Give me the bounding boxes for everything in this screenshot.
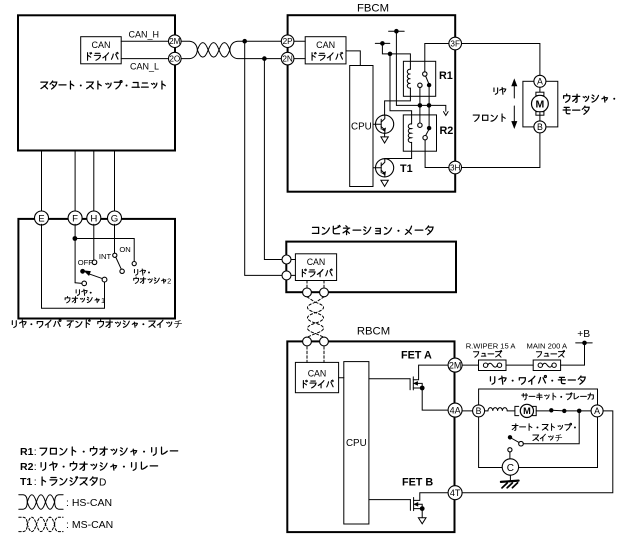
svg-text:R1: R1 (439, 70, 453, 82)
svg-text:CAN: CAN (308, 368, 327, 378)
svg-text:チ: チ (554, 433, 562, 443)
svg-text:CAN: CAN (307, 257, 326, 267)
svg-text:INT: INT (99, 252, 112, 261)
svg-text:R1: R1 (20, 446, 34, 458)
svg-text:C: C (507, 463, 514, 474)
svg-text:M: M (536, 99, 545, 111)
svg-text:2M: 2M (449, 360, 462, 370)
svg-text:RBCM: RBCM (357, 326, 390, 338)
svg-text:FET B: FET B (402, 476, 433, 488)
svg-text:1: 1 (101, 296, 105, 305)
svg-text:A: A (537, 76, 543, 86)
svg-text:FET A: FET A (401, 349, 432, 361)
svg-text:2N: 2N (282, 55, 293, 64)
svg-text:B: B (476, 406, 482, 416)
svg-text:H: H (90, 213, 97, 224)
svg-text:3H: 3H (450, 163, 461, 172)
svg-text:OFF: OFF (78, 258, 94, 267)
svg-text:R.WIPER 15 A: R.WIPER 15 A (466, 342, 517, 351)
svg-text:: MS-CAN: : MS-CAN (66, 519, 113, 531)
svg-text::: : (34, 476, 37, 488)
svg-text:2M: 2M (169, 37, 181, 46)
svg-text:MAIN 200 A: MAIN 200 A (527, 342, 568, 351)
svg-text:CPU: CPU (346, 438, 367, 449)
svg-text:E: E (38, 213, 44, 224)
svg-text:R2: R2 (440, 125, 454, 137)
svg-text:F: F (72, 213, 78, 224)
svg-text:4A: 4A (450, 405, 461, 415)
svg-text:T1: T1 (400, 163, 413, 175)
svg-text:D: D (99, 477, 106, 488)
svg-text:CAN: CAN (316, 40, 335, 50)
svg-text:CPU: CPU (351, 121, 372, 132)
svg-text:R2: R2 (20, 461, 34, 473)
svg-text:CAN_H: CAN_H (128, 30, 159, 40)
svg-text:G: G (111, 213, 118, 224)
svg-text:2O: 2O (169, 55, 180, 64)
svg-text:CAN: CAN (91, 40, 110, 50)
svg-text:B: B (537, 122, 543, 132)
svg-text:ON: ON (119, 245, 130, 254)
svg-text::: : (34, 446, 37, 458)
svg-text:: HS-CAN: : HS-CAN (66, 497, 112, 509)
svg-text:CAN_L: CAN_L (130, 62, 159, 72)
svg-text:2: 2 (167, 276, 171, 285)
svg-text:M: M (523, 406, 531, 416)
svg-text:2P: 2P (283, 37, 294, 46)
svg-text:3F: 3F (450, 39, 460, 48)
svg-text::: : (34, 461, 37, 473)
svg-text:チ: チ (173, 320, 182, 330)
svg-text:A: A (594, 406, 600, 416)
svg-text:4T: 4T (450, 488, 461, 498)
svg-text:T1: T1 (20, 476, 32, 488)
svg-text:FBCM: FBCM (357, 3, 389, 15)
svg-text:+B: +B (577, 329, 590, 340)
